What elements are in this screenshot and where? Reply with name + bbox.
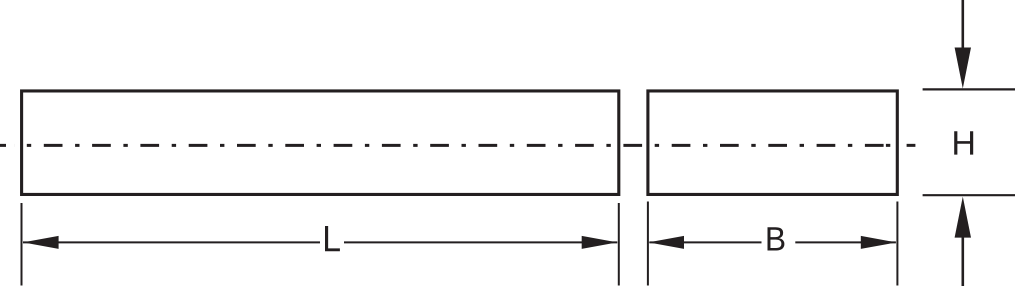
dimension L right arrowhead bbox=[582, 236, 618, 249]
dimension L right extension line bbox=[618, 203, 620, 286]
dimension B right arrowhead bbox=[861, 236, 897, 249]
key body end view outline bbox=[648, 91, 897, 195]
label L bbox=[325, 226, 340, 251]
dimension B right extension line bbox=[896, 202, 898, 286]
dimension H bottom extension line bbox=[923, 194, 1015, 196]
dimension H top leader line bbox=[961, 0, 964, 49]
dimension B line left segment bbox=[649, 241, 761, 243]
label B bbox=[768, 227, 785, 250]
key body side view outline bbox=[22, 91, 619, 195]
centerline final dot bbox=[886, 144, 890, 147]
dimension H bottom arrowhead (pointing up) bbox=[955, 197, 971, 238]
dimension B left arrowhead bbox=[648, 236, 684, 249]
dimension L line left segment bbox=[23, 241, 320, 243]
dimension B left extension line bbox=[647, 202, 649, 286]
dimension H top extension line bbox=[923, 88, 1015, 90]
centerline final dash bbox=[907, 144, 916, 147]
label H bbox=[954, 131, 973, 154]
dimension L left arrowhead bbox=[23, 236, 59, 249]
dimension H bottom leader line bbox=[961, 237, 964, 286]
dimension H top arrowhead (pointing down) bbox=[955, 48, 971, 89]
dimension L left extension line bbox=[21, 203, 23, 286]
dimension B line right segment bbox=[795, 241, 896, 243]
wire patch: shorten first centerline dash bbox=[6, 143, 14, 149]
dimension L line right segment bbox=[344, 241, 617, 243]
centerline (dash-dot axis) bbox=[0, 144, 884, 147]
